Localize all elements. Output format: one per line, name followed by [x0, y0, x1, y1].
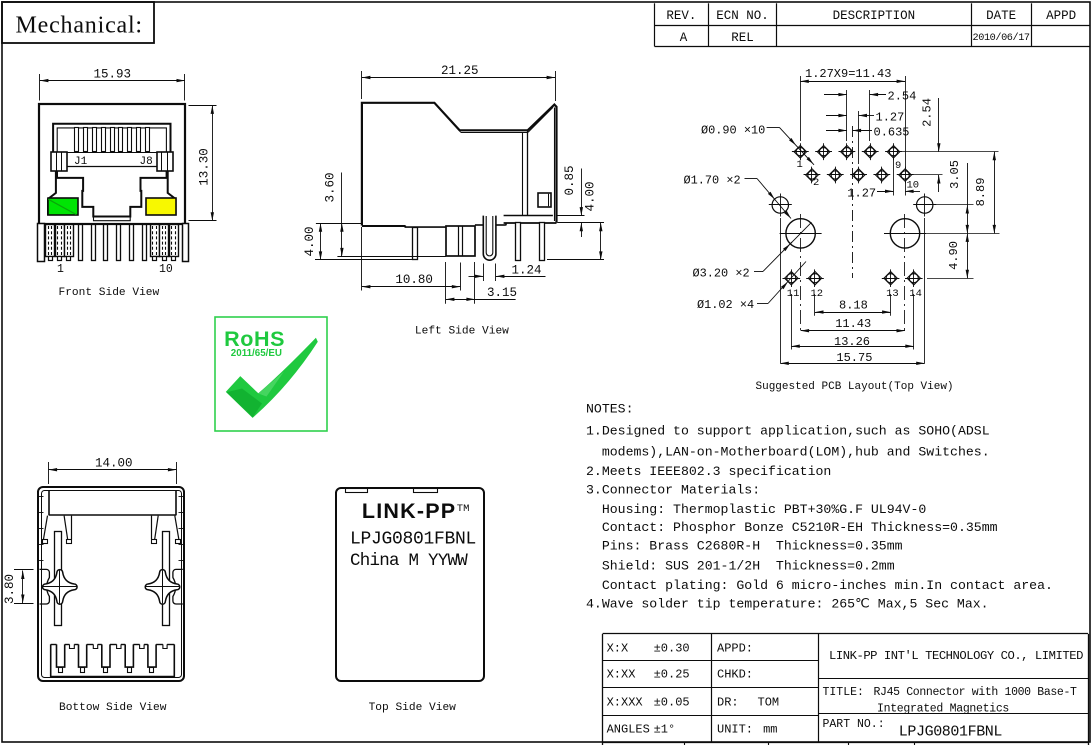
svg-text:ANGLES: ANGLES	[607, 723, 650, 737]
svg-text:REV.: REV.	[666, 9, 696, 23]
svg-text:ECN NO.: ECN NO.	[716, 9, 769, 23]
svg-text:10.80: 10.80	[395, 273, 433, 287]
svg-text:J1: J1	[74, 156, 88, 168]
svg-text:4.Wave solder tip temperature:: 4.Wave solder tip temperature: 265℃ Max,…	[586, 597, 989, 612]
svg-text:2.54: 2.54	[921, 98, 935, 127]
svg-text:1: 1	[797, 159, 803, 171]
svg-text:±0.25: ±0.25	[654, 668, 690, 682]
svg-text:LINK-PP INT'L TECHNOLOGY CO.,: LINK-PP INT'L TECHNOLOGY CO., LIMITED	[829, 649, 1083, 663]
svg-text:Front Side View: Front Side View	[59, 287, 160, 299]
svg-text:1.27X9=11.43: 1.27X9=11.43	[805, 67, 891, 81]
svg-text:11.43: 11.43	[835, 317, 871, 331]
svg-text:11: 11	[787, 288, 800, 300]
svg-text:21.25: 21.25	[441, 64, 479, 78]
svg-text:1.24: 1.24	[512, 264, 542, 278]
svg-text:1.27: 1.27	[847, 187, 876, 201]
svg-text:3.05: 3.05	[948, 160, 962, 189]
svg-text:15.93: 15.93	[94, 68, 132, 82]
svg-text:Ø3.20 ×2: Ø3.20 ×2	[693, 267, 750, 281]
svg-text:0.85: 0.85	[563, 165, 577, 195]
svg-text:3.80: 3.80	[3, 574, 17, 604]
svg-text:Housing: Thermoplastic PBT+30%: Housing: Thermoplastic PBT+30%G.F UL94V-…	[586, 502, 926, 517]
svg-text:APPD: APPD	[1046, 9, 1076, 23]
svg-text:NOTES:: NOTES:	[586, 402, 633, 417]
svg-text:3.15: 3.15	[487, 286, 517, 300]
svg-text:Ø0.90 ×10: Ø0.90 ×10	[701, 124, 765, 138]
svg-text:LINK-PP: LINK-PP	[362, 499, 456, 523]
svg-text:10: 10	[907, 180, 920, 192]
svg-text:Top Side View: Top Side View	[369, 702, 457, 714]
svg-text:Suggested PCB Layout(Top View): Suggested PCB Layout(Top View)	[756, 381, 954, 393]
svg-text:3.Connector Materials:: 3.Connector Materials:	[586, 482, 760, 497]
svg-text:2: 2	[813, 177, 819, 189]
svg-text:13: 13	[886, 288, 899, 300]
svg-text:CHKD:: CHKD:	[717, 668, 753, 682]
svg-text:12: 12	[811, 288, 824, 300]
svg-text:2.54: 2.54	[888, 90, 917, 104]
svg-text:1.Designed to support applicat: 1.Designed to support application,such a…	[586, 424, 990, 439]
svg-text:3.60: 3.60	[324, 172, 338, 202]
svg-text:APPD:: APPD:	[717, 641, 753, 655]
svg-text:X:X: X:X	[607, 641, 629, 655]
svg-text:X:XXX: X:XXX	[607, 695, 643, 709]
svg-text:4.90: 4.90	[947, 241, 961, 270]
svg-text:14.00: 14.00	[95, 457, 133, 471]
svg-text:DR:: DR:	[717, 695, 739, 709]
svg-text:2010/06/17: 2010/06/17	[973, 32, 1030, 44]
svg-text:8.18: 8.18	[839, 299, 868, 313]
svg-text:LPJG0801FBNL: LPJG0801FBNL	[350, 530, 476, 550]
svg-text:±0.05: ±0.05	[654, 695, 690, 709]
svg-text:Ø1.70 ×2: Ø1.70 ×2	[684, 174, 741, 188]
svg-text:mm: mm	[763, 723, 777, 737]
svg-text:Ø1.02 ×4: Ø1.02 ×4	[697, 298, 754, 312]
svg-text:9: 9	[895, 160, 901, 172]
svg-text:±1°: ±1°	[654, 723, 676, 737]
svg-text:Shield: SUS 201-1/2H Thicknes: Shield: SUS 201-1/2H Thickness=0.2mm	[586, 558, 895, 573]
svg-text:2011/65/EU: 2011/65/EU	[231, 348, 282, 359]
svg-text:LPJG0801FBNL: LPJG0801FBNL	[899, 724, 1003, 741]
svg-text:14: 14	[909, 288, 922, 300]
svg-text:UNIT:: UNIT:	[717, 723, 753, 737]
svg-text:Mechanical:: Mechanical:	[16, 13, 143, 39]
svg-text:Left Side View: Left Side View	[415, 326, 509, 338]
svg-text:TM: TM	[457, 503, 470, 515]
svg-text:13.30: 13.30	[198, 148, 212, 186]
svg-text:China M YYWW: China M YYWW	[350, 551, 468, 571]
svg-text:±0.30: ±0.30	[654, 641, 690, 655]
svg-text:RJ45 Connector with 1000 Base-: RJ45 Connector with 1000 Base-T	[874, 686, 1078, 699]
svg-text:modems),LAN-on-Motherboard(LOM: modems),LAN-on-Motherboard(LOM),hub and …	[586, 445, 990, 460]
svg-text:TOM: TOM	[758, 695, 780, 709]
svg-text:8.89: 8.89	[974, 178, 988, 207]
svg-text:0.635: 0.635	[874, 125, 910, 139]
svg-text:PART NO.:: PART NO.:	[823, 718, 885, 731]
svg-text:DESCRIPTION: DESCRIPTION	[833, 9, 916, 23]
svg-text:TITLE:: TITLE:	[823, 686, 864, 699]
svg-text:1.27: 1.27	[876, 110, 905, 124]
svg-text:DATE: DATE	[986, 9, 1016, 23]
svg-text:2.Meets IEEE802.3 specificatio: 2.Meets IEEE802.3 specification	[586, 464, 831, 479]
svg-text:Pins: Brass C2680R-H Thicknes: Pins: Brass C2680R-H Thickness=0.35mm	[586, 539, 903, 554]
svg-text:1: 1	[57, 263, 64, 276]
svg-text:Contact: Phosphor Bonze C5210R: Contact: Phosphor Bonze C5210R-EH Thickn…	[586, 520, 998, 535]
svg-text:REL: REL	[731, 31, 754, 45]
svg-text:J8: J8	[140, 156, 153, 168]
svg-text:4.00: 4.00	[584, 181, 598, 211]
svg-text:4.00: 4.00	[303, 226, 317, 256]
svg-text:Bottow Side View: Bottow Side View	[59, 702, 167, 714]
svg-text:10: 10	[159, 263, 173, 276]
svg-text:A: A	[680, 31, 688, 45]
svg-text:X:XX: X:XX	[607, 668, 636, 682]
svg-text:Contact plating: Gold 6 micro-: Contact plating: Gold 6 micro-inches min…	[586, 578, 1053, 593]
svg-text:Integrated Magnetics: Integrated Magnetics	[877, 703, 1009, 716]
